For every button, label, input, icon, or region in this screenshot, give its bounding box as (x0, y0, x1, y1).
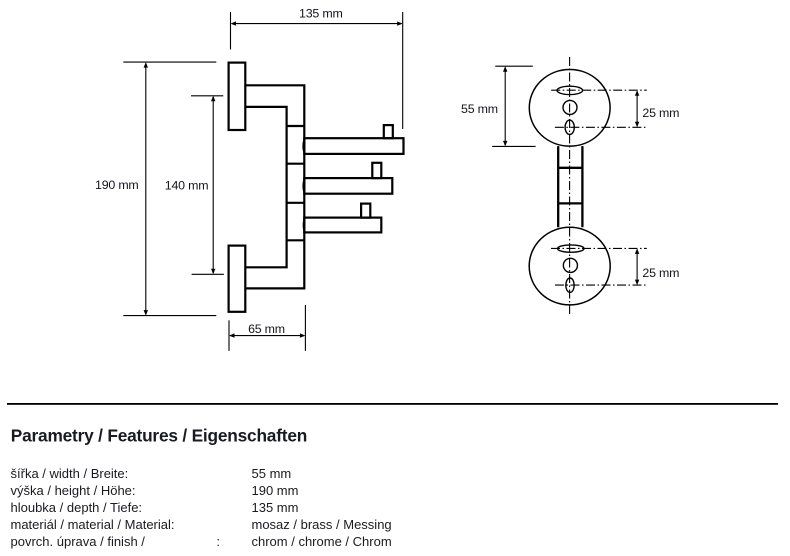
svg-text:190 mm: 190 mm (95, 178, 139, 192)
svg-text:povrch. úprava / finish /: povrch. úprava / finish / (11, 534, 146, 549)
svg-text:materiál / material / Material: materiál / material / Material: (11, 517, 175, 532)
hook 3 (303, 204, 381, 233)
svg-text:55 mm: 55 mm (461, 102, 498, 116)
dimension 55 mm extension top (495, 65, 533, 67)
bottom screw hole (563, 258, 577, 272)
top slot (557, 86, 583, 94)
hook 2 (303, 163, 392, 194)
svg-text:25 mm: 25 mm (642, 266, 679, 280)
dimension 65 mm line (230, 335, 304, 337)
svg-text:135 mm: 135 mm (252, 500, 299, 515)
post divider 4 (287, 239, 305, 241)
bottom oval hole (566, 278, 574, 292)
dimension 140 mm line (212, 97, 214, 273)
dimension 65 mm extension right (304, 305, 306, 351)
centerline top slot (551, 89, 647, 91)
centerline top ellipse (555, 126, 647, 128)
dimension 25 mm top line (636, 91, 638, 126)
svg-text:190 mm: 190 mm (252, 483, 299, 498)
wall plate bottom (229, 246, 246, 312)
svg-text:Parametry / Features / Eigensc: Parametry / Features / Eigenschaften (11, 425, 307, 445)
svg-text:mosaz / brass / Messing: mosaz / brass / Messing (252, 517, 392, 532)
bar divider top (558, 167, 582, 169)
wall plate top (229, 63, 246, 130)
dimension 55 mm extension bottom (492, 145, 535, 147)
svg-text:65 mm: 65 mm (248, 322, 285, 336)
dimension 135 mm extension left (230, 12, 232, 50)
svg-text:chrom / chrome / Chrom: chrom / chrome / Chrom (252, 534, 392, 549)
svg-text::: : (216, 534, 220, 549)
dimension 135 mm line (232, 23, 401, 25)
dimension 140 mm extension top (191, 95, 223, 97)
bar divider bottom (558, 202, 582, 204)
svg-text:135 mm: 135 mm (299, 7, 343, 21)
top screw hole (563, 100, 577, 114)
bottom slot (558, 245, 584, 252)
svg-text:55 mm: 55 mm (252, 466, 292, 481)
rosette circle top (529, 70, 610, 147)
dimension 190 mm extension bottom (123, 315, 216, 317)
svg-text:šířka / width / Breite:: šířka / width / Breite: (11, 466, 129, 481)
dimension 135 mm extension right (402, 12, 404, 129)
dimension 140 mm extension bottom (192, 273, 224, 275)
top oval hole (565, 120, 574, 134)
svg-text:hloubka / depth / Tiefe:: hloubka / depth / Tiefe: (11, 500, 143, 515)
connecting bar right (581, 146, 583, 227)
centerline vertical (569, 57, 571, 317)
post divider 2 (287, 163, 305, 165)
top arm and post outline (245, 85, 304, 288)
svg-text:výška / height / Höhe:: výška / height / Höhe: (11, 483, 136, 498)
post divider 1 (287, 125, 305, 127)
centerline bottom slot (551, 247, 647, 249)
dimension 25 mm bottom line (636, 250, 638, 285)
svg-text:140 mm: 140 mm (165, 179, 209, 193)
svg-text:25 mm: 25 mm (642, 106, 679, 120)
dimension 55 mm line (504, 68, 506, 146)
dimension 190 mm extension top (123, 61, 216, 63)
post divider 3 (287, 202, 305, 204)
centerline bottom ellipse (555, 284, 647, 286)
dimension 65 mm extension left (228, 320, 230, 351)
separator rule (7, 403, 778, 405)
rosette circle bottom (529, 227, 610, 305)
connecting bar left (557, 146, 559, 227)
dimension 190 mm line (145, 64, 147, 315)
hook 1 (303, 125, 403, 154)
